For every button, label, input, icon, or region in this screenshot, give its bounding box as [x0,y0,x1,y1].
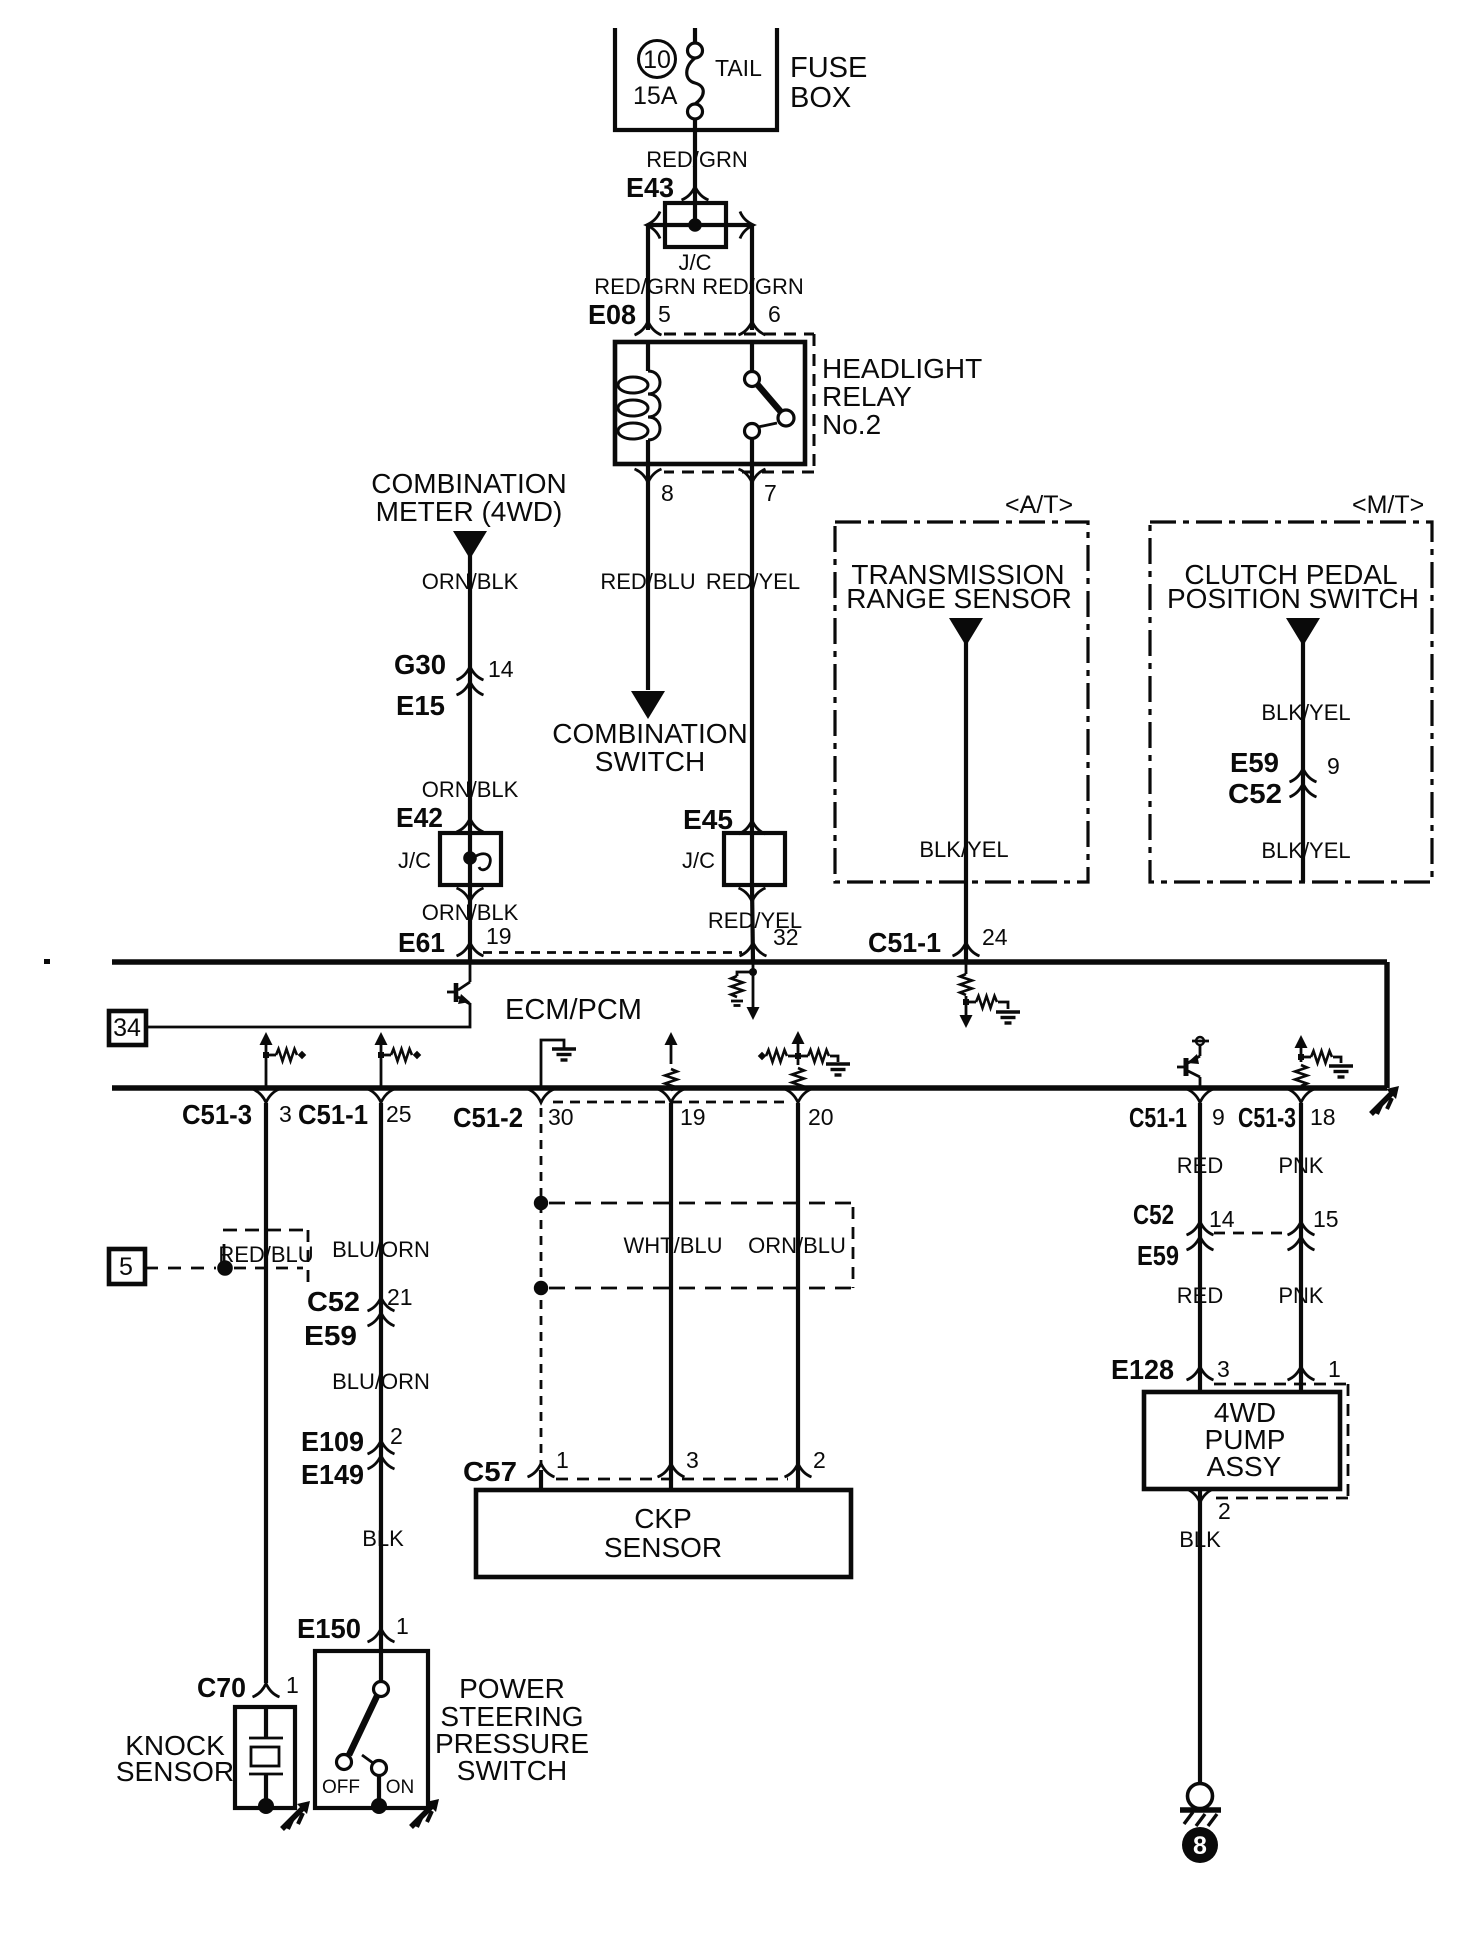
CKP sensor box [476,1490,851,1577]
svg-text:E43: E43 [626,172,674,203]
svg-text:ON: ON [386,1777,415,1798]
junction connector J/C E45 box [724,833,785,885]
svg-text:POSITION SWITCH: POSITION SWITCH [1167,583,1419,614]
ref label 34 box [109,1011,146,1045]
svg-text:C52: C52 [307,1286,360,1317]
connector E59/C52 double chevron [1290,769,1317,798]
svg-text:G30: G30 [394,649,446,680]
wire into ECM [468,885,472,962]
svg-text:24: 24 [982,924,1008,950]
wire PNK pin 18 down [1299,1103,1303,1392]
connector E43 chevron [682,187,709,201]
svg-text:E109: E109 [301,1426,364,1457]
ECM internal: pin 24 resistor to ground [960,962,1021,1028]
svg-text:RED: RED [1177,1283,1223,1308]
svg-text:SWITCH: SWITCH [595,746,705,777]
svg-text:C52: C52 [1228,778,1282,809]
svg-text:E150: E150 [297,1613,361,1644]
svg-text:15A: 15A [633,82,678,110]
connector E08 chevron pin6 [739,322,766,336]
svg-text:FUSE: FUSE [790,52,867,84]
shield dashed box bottom [549,1287,853,1290]
svg-text:PNK: PNK [1278,1283,1324,1308]
shadow box bottom [1214,1497,1348,1500]
switch contacts [337,1651,389,1814]
chassis ground knock sensor [282,1801,310,1829]
svg-text:10: 10 [643,46,671,74]
svg-text:ASSY: ASSY [1207,1451,1282,1482]
wire ORN/BLK down [468,548,472,833]
fuse 10 circled label [639,41,676,78]
svg-text:BOX: BOX [790,82,851,114]
C57 chevron pin 2 [785,1464,812,1478]
knock sensor box [235,1707,295,1808]
ECM internal: pin 18 resistor network [1295,1035,1354,1086]
svg-text:C51-3: C51-3 [1238,1102,1296,1133]
svg-text:3: 3 [279,1101,292,1127]
svg-text:1: 1 [396,1613,409,1639]
connector E42 chevron [457,819,484,833]
svg-text:18: 18 [1310,1104,1336,1130]
svg-text:<M/T>: <M/T> [1352,491,1424,519]
wire to ECM pin 32 [752,885,753,962]
svg-text:SWITCH: SWITCH [457,1755,567,1786]
wire pin 25 down [379,1103,383,1651]
svg-text:7: 7 [764,480,777,506]
relay pin 7 chevron [739,469,766,483]
svg-text:ORN/BLK: ORN/BLK [422,569,519,594]
svg-text:E08: E08 [588,299,636,330]
wire to E08 pin 6 [750,225,754,330]
svg-text:SENSOR: SENSOR [604,1532,722,1563]
svg-text:POWER: POWER [459,1673,565,1704]
svg-text:CKP: CKP [634,1503,692,1534]
relay coil [618,342,660,464]
svg-text:25: 25 [386,1101,412,1127]
wire pin 20 down [796,1103,800,1490]
J/C E43 left pin chevron [647,212,661,239]
wire pin 3 down [264,1103,268,1683]
knock sensor piezo element [249,1707,283,1814]
shield dashed wire pin 30 [540,1108,543,1464]
shield junction node upper [534,1196,548,1210]
svg-text:C52: C52 [1133,1199,1174,1230]
dashed wire to label [234,1267,303,1270]
svg-text:BLK/YEL: BLK/YEL [919,837,1008,862]
connector E150 chevron [368,1629,395,1643]
relay switch contacts [745,342,795,464]
svg-text:WHT/BLU: WHT/BLU [624,1233,723,1258]
chassis ground PSP switch [411,1799,439,1827]
svg-text:21: 21 [387,1284,413,1310]
ground terminal circle [1188,1784,1213,1809]
svg-text:ORN/BLU: ORN/BLU [748,1233,846,1258]
svg-text:HEADLIGHT: HEADLIGHT [822,353,982,384]
ECM pin 24 chevron [953,943,980,957]
svg-text:1: 1 [286,1672,299,1698]
svg-text:15: 15 [1313,1206,1339,1232]
fuse F10 symbol [687,28,704,188]
wire BLK down to ground [1198,1489,1202,1784]
svg-text:COMBINATION: COMBINATION [552,718,747,749]
svg-text:BLK/YEL: BLK/YEL [1261,700,1350,725]
svg-text:E45: E45 [683,804,733,835]
svg-text:BLK: BLK [1179,1527,1221,1552]
svg-text:RED/BLU: RED/BLU [218,1242,313,1267]
svg-text:J/C: J/C [679,250,712,275]
svg-text:6: 6 [768,301,781,327]
shadow box right [1347,1384,1350,1498]
svg-text:1: 1 [1328,1356,1341,1382]
svg-text:BLU/ORN: BLU/ORN [332,1237,430,1262]
ECM pin 32 chevron [740,943,767,957]
ECM internal: pin 20 resistor network [758,1031,850,1089]
svg-text:E128: E128 [1111,1354,1174,1385]
svg-text:E42: E42 [396,802,443,833]
flow arrow to combination switch [631,691,665,719]
J/C E43 right pin chevron [740,212,754,239]
shield junction node lower [534,1281,548,1295]
ECM internal: pin 32 resistor to ground [731,962,760,1020]
svg-text:RED/GRN: RED/GRN [646,147,747,172]
ECM bottom pin chevrons [253,1089,280,1103]
svg-text:METER (4WD): METER (4WD) [376,496,563,527]
connector E45 lower chevron [739,888,766,902]
connector E109/E149 double chevron [368,1441,395,1470]
E128 dashed link and shadow box top [1214,1383,1348,1386]
svg-text:2: 2 [1218,1498,1231,1524]
svg-text:RED: RED [1177,1153,1223,1178]
wire to E08 pin 5 [646,225,650,330]
C57 chevron pin 1 [528,1464,555,1478]
connector E08 chevron pin5 [635,322,662,336]
svg-text:C51-2: C51-2 [453,1102,523,1133]
svg-text:SENSOR: SENSOR [116,1756,234,1787]
svg-text:RELAY: RELAY [822,381,912,412]
dashed wire from 5 [145,1267,216,1270]
svg-text:2: 2 [390,1423,403,1449]
svg-text:C51-1: C51-1 [298,1099,368,1130]
flow arrow from combination meter [453,531,487,559]
svg-text:34: 34 [113,1014,141,1042]
connector E61 chevron pin 19 [457,943,484,957]
svg-text:C51-1: C51-1 [1129,1102,1187,1133]
E128 chevron pin 1 [1288,1367,1315,1381]
relay dashed connector outline [664,334,814,472]
svg-text:2: 2 [813,1447,826,1473]
connector G30/E15 double chevron [457,667,484,696]
ground ref 8 [1182,1827,1218,1863]
junction connector J/C E43 box [648,188,752,247]
transistor Q1 (pin 19 input) [447,962,470,1004]
relay pin 8 chevron [635,469,662,483]
svg-text:19: 19 [486,923,512,949]
svg-text:ORN/BLK: ORN/BLK [422,777,519,802]
svg-text:3: 3 [1217,1356,1230,1382]
connector E42 lower chevron [457,888,484,902]
svg-text:14: 14 [488,656,514,682]
connector C52/E59 double chevron pin 14 [1187,1222,1214,1251]
transistor Q2 (pin 9) [1177,1037,1209,1088]
svg-text:RED/GRN: RED/GRN [594,274,695,299]
headlight relay No.2 box [615,342,805,464]
svg-text:5: 5 [658,301,671,327]
E128 chevron pin 3 [1187,1367,1214,1381]
svg-text:PNK: PNK [1278,1153,1324,1178]
svg-text:E61: E61 [398,927,445,958]
chassis ground at ECM right corner [1371,1086,1399,1114]
transmission range sensor dashed box [835,522,1088,882]
dashed link C52 pins [1214,1232,1287,1235]
connector C70 chevron [253,1684,280,1698]
wire pin7 down to E45 [750,464,754,833]
svg-text:C51-1: C51-1 [868,927,941,958]
svg-text:5: 5 [119,1253,133,1281]
wire BLK/YEL to ECM pin 24 [964,635,968,962]
ECM internal: pin 19 resistor [665,1032,678,1090]
svg-text:C70: C70 [197,1672,246,1703]
svg-text:J/C: J/C [682,848,715,873]
clutch pedal position switch dashed box [1150,522,1432,882]
wire pin 19 down [669,1103,673,1490]
ECM internal: pin 30 ground [541,1040,576,1088]
wire stubs into CKP box [539,1470,543,1490]
connector C52/E59 double chevron [368,1298,395,1327]
C57 dashed link [556,1478,788,1481]
svg-text:BLU/ORN: BLU/ORN [332,1369,430,1394]
svg-text:E59: E59 [1230,747,1279,778]
wire pin8 down [646,464,650,690]
shield dashed link pins 30-19-20 [553,1101,790,1104]
svg-text:C51-3: C51-3 [182,1099,252,1130]
stray mark left margin [44,959,50,964]
connector E45 chevron [739,821,766,835]
shield dashed box top [549,1202,853,1205]
svg-text:TAIL: TAIL [715,55,762,81]
svg-text:RANGE SENSOR: RANGE SENSOR [846,583,1072,614]
svg-text:E149: E149 [301,1459,364,1490]
svg-text:30: 30 [548,1104,574,1130]
svg-text:COMBINATION: COMBINATION [371,468,566,499]
svg-text:8: 8 [1193,1832,1207,1860]
ECM internal: pin 3 pull-up resistor [260,1032,307,1088]
svg-text:OFF: OFF [322,1777,360,1798]
svg-text:BLK: BLK [362,1526,404,1551]
svg-text:RED/BLU: RED/BLU [600,569,695,594]
flow arrow from sensor [949,618,983,646]
shield dashed box right [852,1207,855,1288]
svg-text:E59: E59 [304,1320,357,1351]
power steering pressure switch box [315,1651,428,1808]
ECM/PCM right edge [1384,962,1389,1088]
svg-text:E59: E59 [1137,1240,1179,1271]
connector C52/E59 double chevron pin 15 [1288,1222,1315,1251]
E61 dashed link [483,951,742,954]
ground bar and hatches [1180,1810,1221,1826]
svg-text:20: 20 [808,1104,834,1130]
4WD pump assy box [1144,1392,1340,1489]
svg-text:No.2: No.2 [822,409,881,440]
svg-text:32: 32 [773,924,799,950]
junction connector J/C E42 box [440,833,501,885]
svg-text:9: 9 [1212,1104,1225,1130]
C57 chevron pin 3 [658,1464,685,1478]
svg-text:3: 3 [686,1447,699,1473]
ECM internal: pin 25 pull-up resistor [375,1032,422,1088]
junction dot [217,1260,233,1276]
svg-text:RED/GRN: RED/GRN [702,274,803,299]
pump pin 2 chevron [1187,1489,1214,1503]
svg-text:ECM/PCM: ECM/PCM [505,994,642,1026]
fuse box outline [615,28,777,130]
wire RED pin 9 down [1198,1103,1202,1392]
svg-text:8: 8 [661,480,674,506]
svg-text:E15: E15 [396,690,445,721]
svg-text:1: 1 [556,1447,569,1473]
ECM/PCM bottom boundary [112,1085,1387,1090]
RED/BLU dashed label bracket [223,1230,309,1286]
svg-text:9: 9 [1327,753,1340,779]
wire BLK/YEL [1301,635,1305,882]
ECM/PCM top boundary [112,959,1387,964]
svg-text:<A/T>: <A/T> [1005,491,1073,519]
svg-text:J/C: J/C [398,848,431,873]
svg-text:14: 14 [1209,1206,1235,1232]
svg-text:19: 19 [680,1104,706,1130]
svg-text:BLK/YEL: BLK/YEL [1261,838,1350,863]
svg-text:C57: C57 [463,1456,517,1487]
flow arrow from switch [1286,618,1320,646]
ref label 5 box [109,1249,145,1284]
wire from 34 to transistor [146,1003,470,1027]
